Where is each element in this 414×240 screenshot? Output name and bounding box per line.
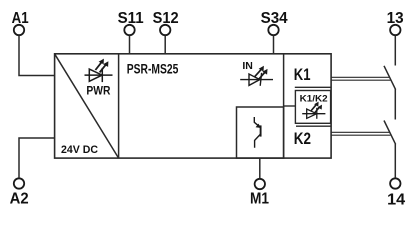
K2 compartment top: [296, 125, 331, 127]
svg-text:K1/K2: K1/K2: [300, 93, 328, 103]
K1/K2 indicator box: [295, 91, 330, 124]
svg-text:M1: M1: [250, 191, 269, 208]
wire S11: [129, 36, 131, 55]
terminal M1: [250, 158, 269, 208]
terminal A1: [12, 10, 55, 76]
terminal S34: [261, 10, 288, 54]
LED PWR: [85, 59, 113, 83]
semiconductor output box: [237, 107, 284, 158]
K1 compartment bottom: [295, 86, 331, 88]
svg-text:K2: K2: [294, 130, 311, 148]
wire A1 to box: [19, 36, 55, 76]
transistor symbol: [254, 117, 261, 148]
wire to K1/K2 box: [284, 105, 296, 107]
wire 14 up to contact: [394, 144, 396, 178]
power supply diagonal: [55, 54, 119, 158]
LED K1/K2: [302, 102, 325, 119]
main device box: [55, 54, 332, 158]
terminal S11: [118, 10, 144, 54]
wire between contacts: [394, 89, 396, 120]
contact K1 blade: [384, 66, 396, 90]
svg-text:24V DC: 24V DC: [61, 144, 98, 156]
wire A2 to box: [19, 138, 55, 178]
wire M1: [259, 158, 261, 179]
terminal S12: [153, 10, 179, 54]
K2 mechanical link (double line): [331, 132, 390, 135]
contact K2 blade: [384, 121, 396, 145]
terminal 13: [387, 10, 404, 66]
terminal 14: [387, 144, 405, 208]
svg-text:IN: IN: [242, 61, 253, 72]
LED IN: [240, 66, 273, 86]
wire S12: [164, 36, 166, 55]
wire 13 down to contact: [394, 36, 396, 66]
svg-text:A2: A2: [10, 190, 29, 207]
svg-text:14: 14: [387, 191, 405, 208]
terminal A2: [10, 138, 55, 207]
svg-text:PWR: PWR: [86, 84, 110, 97]
svg-text:PSR-MS25: PSR-MS25: [127, 61, 179, 76]
svg-text:K1: K1: [294, 66, 311, 84]
wire S34: [273, 36, 275, 55]
divider power section: [118, 54, 120, 158]
divider relay section: [283, 54, 285, 158]
K1 mechanical link (double line): [331, 77, 390, 80]
